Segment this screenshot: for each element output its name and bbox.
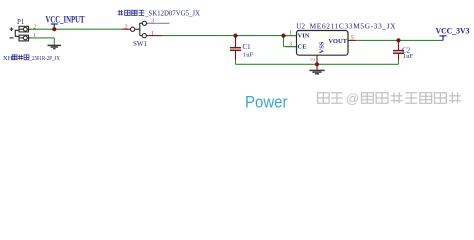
svg-text:CE: CE: [298, 43, 307, 50]
svg-text:_2501R-2P_JX: _2501R-2P_JX: [29, 56, 61, 62]
svg-text:1uF: 1uF: [403, 53, 414, 60]
svg-text:_SK12D07VG5_JX: _SK12D07VG5_JX: [144, 10, 200, 18]
svg-text:1: 1: [289, 30, 292, 37]
svg-text:VCC_3V3: VCC_3V3: [436, 26, 470, 36]
svg-text:SW1: SW1: [133, 40, 148, 48]
svg-text:2: 2: [310, 58, 317, 61]
svg-text:Power: Power: [245, 94, 288, 112]
svg-text:3: 3: [289, 41, 292, 48]
svg-text:2: 2: [125, 23, 128, 30]
svg-text:U2: U2: [297, 23, 306, 31]
svg-text:VIN: VIN: [298, 33, 310, 40]
svg-text:5: 5: [351, 35, 354, 42]
svg-text:1: 1: [151, 30, 154, 37]
svg-text:VOUT: VOUT: [328, 38, 347, 45]
svg-text:P1: P1: [17, 18, 25, 26]
svg-text:1: 1: [33, 32, 36, 39]
svg-text:2: 2: [33, 23, 36, 30]
svg-text:VCC_INPUT: VCC_INPUT: [46, 14, 85, 24]
svg-text:XH: XH: [3, 55, 13, 62]
svg-text:@: @: [346, 91, 359, 106]
svg-text:3: 3: [151, 17, 154, 24]
svg-text:VSS: VSS: [319, 41, 326, 53]
svg-text:ME6211C33M5G-33_JX: ME6211C33M5G-33_JX: [310, 22, 397, 31]
svg-text:C1: C1: [243, 43, 252, 51]
svg-text:1uF: 1uF: [243, 51, 254, 58]
